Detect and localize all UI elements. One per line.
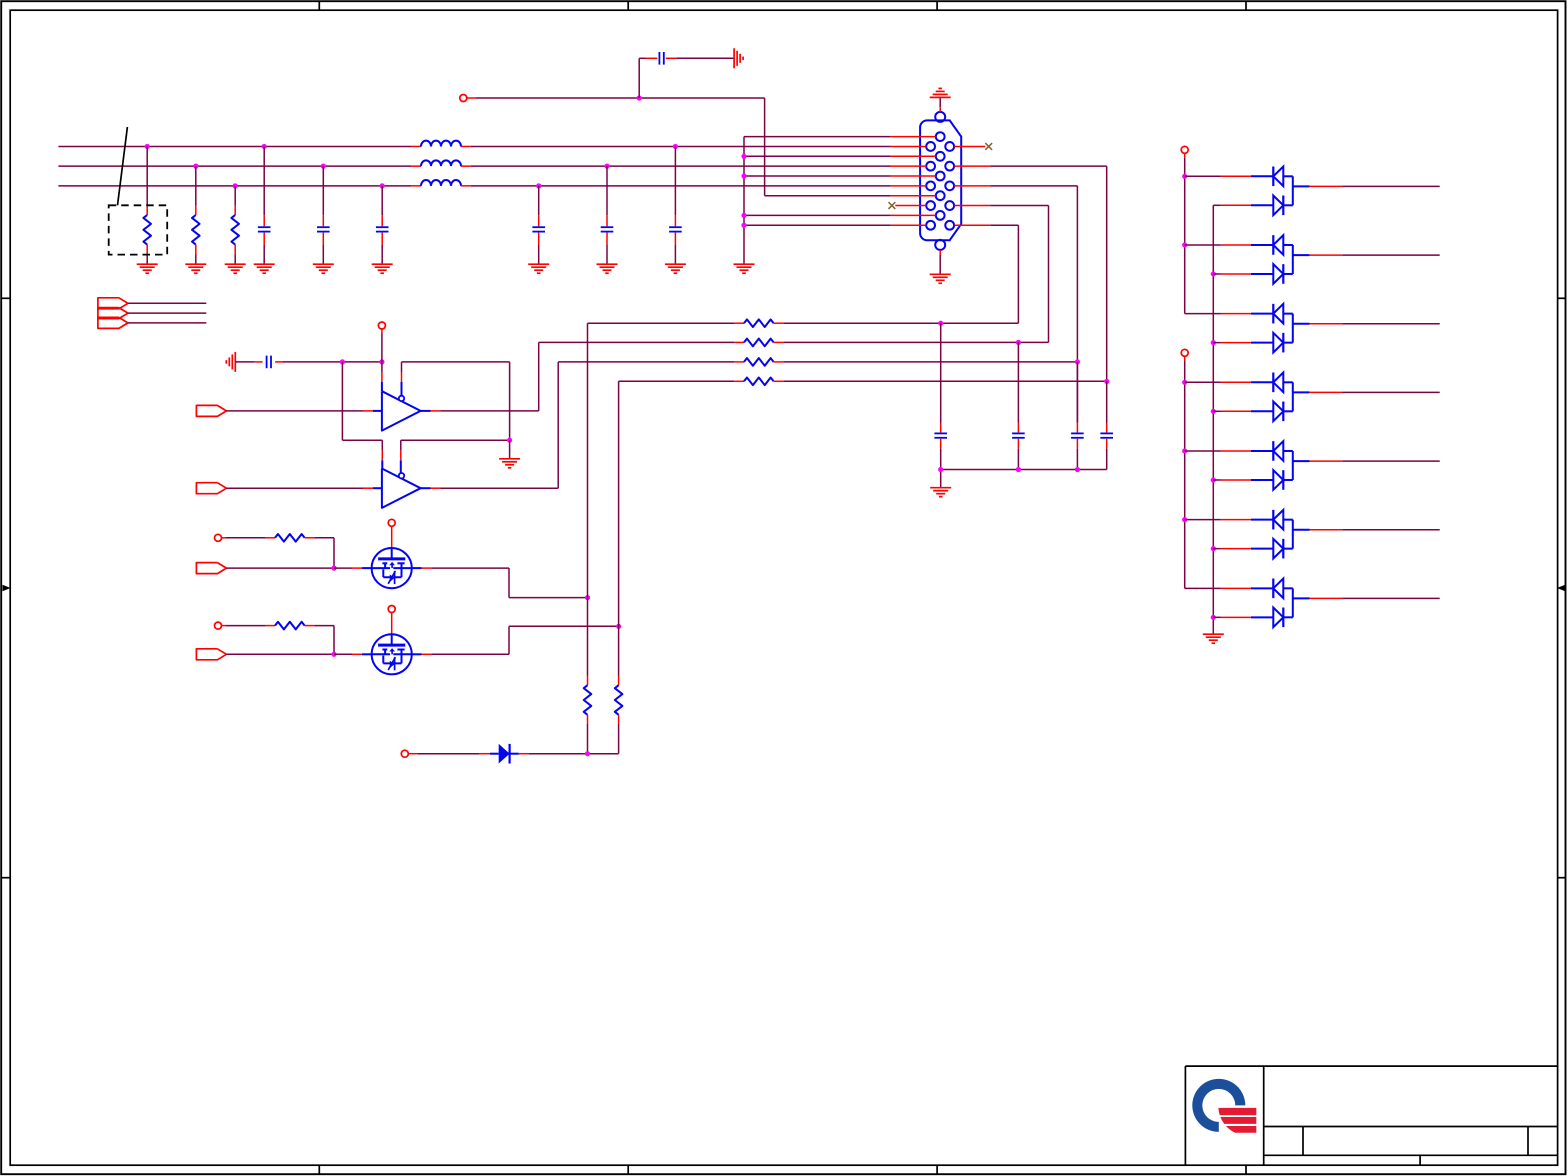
inductor L2	[411, 160, 471, 166]
junction R5 row	[1016, 340, 1021, 345]
capacitor C6	[669, 144, 682, 264]
ground under C6	[665, 264, 686, 273]
diode pair D3 upper	[1185, 235, 1293, 255]
capacitor C1	[258, 144, 271, 264]
diode pair D2 lower	[1213, 196, 1293, 216]
ground under C1	[254, 264, 275, 273]
chassis ground top	[734, 48, 743, 68]
diode D1	[480, 744, 529, 764]
diode pair D8 lower	[1213, 608, 1293, 628]
wire SCL net from pin	[990, 225, 1018, 323]
no-connect X pin8	[889, 202, 896, 209]
ground under R2	[185, 264, 206, 273]
port BLUE out	[98, 317, 206, 328]
diode pair D4 output	[1293, 314, 1440, 343]
connector J1 DB15 body	[920, 120, 961, 240]
diode pair D4 upper	[1221, 304, 1293, 324]
resistor R5 series HSYNC-buf	[539, 339, 1049, 347]
diode pair D6 output	[1293, 451, 1440, 480]
terminal M2 drain pullup	[388, 606, 395, 635]
ground under R3	[225, 264, 246, 273]
diode pair D2 upper	[1185, 167, 1293, 187]
terminal M2 gate supply	[215, 622, 266, 629]
terminal J-VCC top	[460, 95, 476, 102]
wire GREEN video line	[58, 165, 890, 167]
capacitor C4	[532, 183, 545, 264]
ground ESD rail	[1203, 634, 1224, 643]
wire SDA net from pin	[990, 206, 1048, 343]
dashed option box around R1	[109, 205, 168, 254]
resistor R4 series SCL	[588, 319, 1019, 327]
diode pair D7 upper	[1185, 510, 1293, 530]
junctions rail B	[1211, 271, 1216, 620]
ground under connector rail	[734, 264, 755, 273]
wire VCC horizontal	[476, 97, 765, 99]
resistor R1 termination	[143, 144, 151, 264]
connector shield ground top	[930, 88, 951, 112]
resistor R10 pullup	[584, 676, 592, 754]
junction R6 row	[1075, 359, 1080, 364]
terminal ESD supply 2	[1181, 349, 1188, 361]
wire SDA pullup column	[618, 381, 620, 675]
ground buffer enable	[499, 440, 520, 468]
capacitor C3	[376, 183, 389, 264]
junction M2 gate	[331, 652, 336, 657]
junction VCC-cap	[637, 95, 642, 100]
wire ESD rail A2	[1185, 361, 1221, 588]
inductor L3	[411, 180, 471, 186]
resistor R8 gate	[265, 534, 315, 542]
wire VSYNC net from pin	[990, 186, 1077, 423]
transistor Q2	[372, 634, 412, 674]
wire U1 output	[421, 342, 539, 411]
terminal buffer VCC	[378, 322, 385, 362]
diode pair D8 output	[1293, 588, 1440, 617]
chassis ground left	[226, 352, 235, 372]
wire ESD rail A1	[1185, 158, 1221, 314]
resistor R2 termination	[192, 164, 200, 265]
wire connector ground rail	[744, 137, 891, 265]
diode pair D3 output	[1293, 245, 1440, 274]
resistor R6 series VSYNC-buf	[558, 358, 1077, 366]
diode pair D7 lower	[1213, 539, 1293, 559]
capacitor C12 bypass	[235, 356, 283, 369]
capacitor C5	[601, 164, 614, 265]
wire diode to pullups	[529, 753, 619, 755]
resistor R9 gate	[265, 622, 315, 630]
buffer U2 enable pin run	[401, 440, 510, 473]
junctions cap bank rail	[938, 467, 1080, 472]
wire R9 to gate node	[315, 626, 334, 655]
diode pair D4 lower	[1213, 333, 1293, 353]
capacitor C10	[646, 52, 676, 65]
buffer U2 power pin run	[342, 362, 382, 469]
diode pair D7 output	[1293, 520, 1440, 549]
connector left pin stubs	[891, 137, 936, 226]
ground under C3	[372, 264, 393, 273]
connector J1 pins	[926, 112, 954, 250]
junction M1 gate	[331, 566, 336, 571]
junctions rail A1	[1182, 174, 1187, 248]
diode pair D5 upper	[1185, 373, 1293, 393]
diode pair D5 output	[1293, 382, 1440, 411]
wire M2 drain to node	[412, 626, 619, 654]
wire R8 to gate node	[315, 538, 334, 568]
transistor Q1	[372, 548, 412, 588]
ground under C2	[313, 264, 334, 273]
wire M2 source	[334, 653, 372, 655]
terminal M1 drain pullup	[388, 519, 395, 548]
title block	[1185, 1066, 1557, 1165]
junction power net A	[340, 359, 345, 364]
wire RED video line	[58, 145, 890, 147]
annotation pointer line	[118, 127, 128, 205]
junction power net B	[379, 359, 384, 364]
wire HSYNC net from pin	[990, 166, 1106, 381]
buffer U2	[382, 469, 421, 508]
wire ESD rail B ground	[1212, 205, 1214, 634]
diode pair D5 lower	[1213, 402, 1293, 422]
terminal M1 gate supply	[215, 534, 266, 541]
capacitor C11	[1100, 381, 1113, 469]
resistor R3 termination	[231, 183, 239, 264]
junctions on ground rail	[741, 154, 746, 228]
company logo	[1192, 1079, 1256, 1133]
port RED out	[98, 298, 206, 309]
wire cap bank ground rail	[941, 470, 1107, 488]
wire VCC down to connector pin row	[765, 98, 891, 196]
port DDC-SDA in	[196, 649, 334, 660]
resistor R11 pullup	[615, 676, 623, 754]
junctions rail A2	[1182, 380, 1187, 523]
diode pair D2 output	[1293, 176, 1440, 205]
junction R4 row	[938, 321, 943, 326]
resistor R7 series SDA	[619, 378, 1107, 386]
ground cap bank	[930, 488, 951, 497]
wire SCL pullup column	[587, 323, 589, 675]
capacitor C9	[1071, 362, 1084, 470]
diode pair D6 upper	[1185, 441, 1293, 461]
terminal ESD supply 1	[1181, 146, 1188, 158]
diode pair D6 lower	[1213, 470, 1293, 490]
buffer U1 power pin	[381, 362, 383, 391]
wire BLUE video line	[58, 185, 890, 187]
capacitor C7	[934, 323, 947, 469]
wire cap branch	[639, 58, 646, 98]
port VSYNC in	[196, 483, 382, 494]
port DDC-SCL in	[196, 563, 334, 574]
ground under R1	[137, 264, 158, 273]
port GREEN out	[98, 308, 206, 319]
diode pair D8 upper	[1221, 579, 1293, 599]
wire U2 output	[421, 362, 559, 488]
ground under C4	[528, 264, 549, 273]
capacitor C8	[1012, 342, 1025, 469]
junction M1 drain node	[585, 595, 590, 600]
wire M1 drain to node	[412, 568, 588, 598]
connector right pin stubs	[954, 146, 990, 225]
junction M2 drain node	[616, 624, 621, 629]
wire cap to chassis ground	[676, 57, 734, 59]
capacitor C2	[317, 164, 330, 265]
buffer U1 enable pin and ground run	[402, 362, 510, 440]
diode pair D3 lower	[1213, 264, 1293, 284]
terminal 5V diode	[401, 750, 480, 757]
connector shield ground bottom	[930, 250, 951, 283]
inductor L1	[411, 141, 471, 147]
junction enable ground	[507, 438, 512, 443]
ground under C5	[597, 264, 618, 273]
buffer U1	[382, 391, 421, 430]
port HSYNC in	[196, 405, 382, 416]
wire M1 source	[334, 567, 372, 569]
no-connect X pin11	[985, 143, 992, 150]
wire buffer power net	[283, 361, 382, 363]
junction pullup node	[585, 751, 590, 756]
junction R7 row	[1104, 379, 1109, 384]
